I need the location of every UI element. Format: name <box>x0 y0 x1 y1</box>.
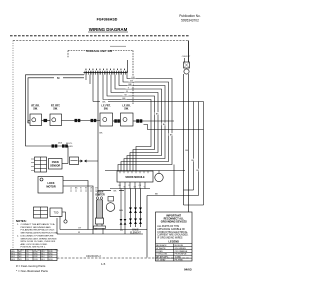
svg-text:BR BROWN: BR BROWN <box>156 257 168 259</box>
svg-text:OR2: OR2 <box>34 256 38 258</box>
svg-text:POSITION. SEE NOTE 1.: POSITION. SEE NOTE 1. <box>21 247 47 249</box>
svg-text:GY: GY <box>130 80 134 82</box>
svg-text:BL3: BL3 <box>41 259 44 261</box>
svg-text:GN1: GN1 <box>49 254 53 256</box>
svg-text:BL0: BL0 <box>41 251 44 253</box>
svg-text:BK1: BK1 <box>11 254 14 256</box>
svg-text:R0: R0 <box>26 251 28 253</box>
svg-text:SW.: SW. <box>104 107 109 110</box>
svg-text:OVEN: OVEN <box>52 161 59 164</box>
svg-text:PK PINK: PK PINK <box>175 260 184 262</box>
svg-text:OR0: OR0 <box>34 251 38 253</box>
svg-text:* = Non-Illustrated Parts: * = Non-Illustrated Parts <box>16 269 48 273</box>
svg-text:DLB: DLB <box>58 143 63 145</box>
svg-text:SW.: SW. <box>124 107 129 110</box>
svg-text:5995343702: 5995343702 <box>181 19 199 23</box>
svg-text:04D26040S-3: 04D26040S-3 <box>86 255 101 258</box>
svg-text:W0: W0 <box>19 251 22 253</box>
svg-text:BK BLACK: BK BLACK <box>156 244 167 247</box>
svg-text:GN2: GN2 <box>49 256 53 258</box>
svg-text:WIRING DIAGRAM: WIRING DIAGRAM <box>89 27 128 32</box>
svg-text:FGF366ASD: FGF366ASD <box>97 18 118 22</box>
svg-text:CONDUCTING ELECTRICAL: CONDUCTING ELECTRICAL <box>157 231 188 234</box>
svg-text:W3: W3 <box>19 259 22 261</box>
svg-text:BAKE: BAKE <box>132 229 139 232</box>
svg-text:CONNECT THE APPLIANCE TO A: CONNECT THE APPLIANCE TO A <box>21 223 56 226</box>
svg-text:BK2: BK2 <box>11 256 14 258</box>
svg-text:SPARK MODULE: SPARK MODULE <box>125 176 145 179</box>
svg-text:BK3: BK3 <box>11 259 14 261</box>
svg-text:GN GREEN: GN GREEN <box>175 248 187 250</box>
svg-text:W2: W2 <box>19 256 22 258</box>
svg-text:ALL PARTS OF THIS: ALL PARTS OF THIS <box>157 225 179 228</box>
svg-text:# = Fast-moving Parts: # = Fast-moving Parts <box>16 264 46 268</box>
svg-text:OR: OR <box>131 77 135 79</box>
svg-text:POLARIZED RECEPTACLE ONLY.: POLARIZED RECEPTACLE ONLY. <box>21 229 56 232</box>
svg-text:APPLIANCE CAPABLE OF: APPLIANCE CAPABLE OF <box>157 228 185 231</box>
svg-text:W1: W1 <box>19 254 22 256</box>
svg-text:CURRENT ARE GROUNDED.: CURRENT ARE GROUNDED. <box>157 234 188 237</box>
svg-text:Y YELLOW: Y YELLOW <box>156 254 167 256</box>
svg-text:BL1: BL1 <box>41 254 44 256</box>
svg-text:SEE INSTALLATION INSTRUCTIONS.: SEE INSTALLATION INSTRUCTIONS. <box>21 231 59 234</box>
svg-text:GN3: GN3 <box>49 259 53 261</box>
svg-text:NOTES:: NOTES: <box>16 219 27 223</box>
svg-text:IF GROUNDING WIRES: IF GROUNDING WIRES <box>157 238 183 240</box>
svg-text:SENSOR: SENSOR <box>50 165 60 168</box>
svg-text:R1: R1 <box>26 254 28 256</box>
svg-text:BK: BK <box>57 77 61 80</box>
svg-text:GY GRAY: GY GRAY <box>156 259 166 262</box>
svg-text:SW.: SW. <box>53 107 58 110</box>
svg-text:SW.: SW. <box>33 107 38 110</box>
svg-text:GROUNDING DEVICES: GROUNDING DEVICES <box>161 221 187 224</box>
svg-text:IGNITER: IGNITER <box>95 194 105 196</box>
svg-text:DISCONNECT POWER BEFORE: DISCONNECT POWER BEFORE <box>21 236 54 238</box>
svg-text:OR3: OR3 <box>34 259 38 261</box>
svg-text:MOTOR: MOTOR <box>46 186 55 189</box>
svg-text:R3: R3 <box>26 259 28 261</box>
svg-text:LEGEND: LEGEND <box>169 240 180 243</box>
svg-text:W WHITE: W WHITE <box>156 248 166 250</box>
svg-text:W: W <box>124 186 126 188</box>
svg-text:SERVICING UNIT. WIRING SHOWN: SERVICING UNIT. WIRING SHOWN <box>21 238 57 240</box>
svg-text:SURFACE UNIT SW: SURFACE UNIT SW <box>86 49 112 53</box>
svg-text:GN0: GN0 <box>49 251 53 253</box>
svg-text:T TAN: T TAN <box>175 256 181 259</box>
svg-text:BR: BR <box>128 84 131 86</box>
svg-text:PROPERLY GROUNDED AND: PROPERLY GROUNDED AND <box>21 226 52 229</box>
svg-text:1-5: 1-5 <box>101 262 106 266</box>
svg-text:04/03: 04/03 <box>184 267 192 271</box>
svg-text:OVEN: OVEN <box>97 192 104 194</box>
svg-text:WITH DOOR CLOSED, OVEN OFF: WITH DOOR CLOSED, OVEN OFF <box>21 241 56 243</box>
svg-text:OVEN LT: OVEN LT <box>182 56 191 58</box>
svg-text:AND LOCK IN UNLOCKED: AND LOCK IN UNLOCKED <box>21 243 48 246</box>
svg-text:OR ORANGE: OR ORANGE <box>175 250 188 253</box>
svg-text:BK0: BK0 <box>11 251 14 253</box>
svg-text:BL2: BL2 <box>41 256 44 258</box>
svg-text:TOD: TOD <box>54 213 59 215</box>
svg-text:GY: GY <box>78 228 82 230</box>
svg-text:Publication No.: Publication No. <box>179 14 201 18</box>
svg-text:PR PURPLE: PR PURPLE <box>175 254 187 256</box>
svg-text:R2: R2 <box>26 256 28 258</box>
svg-text:R RED: R RED <box>156 251 163 253</box>
svg-text:OR1: OR1 <box>34 254 38 256</box>
svg-text:BL BLUE: BL BLUE <box>175 245 184 247</box>
